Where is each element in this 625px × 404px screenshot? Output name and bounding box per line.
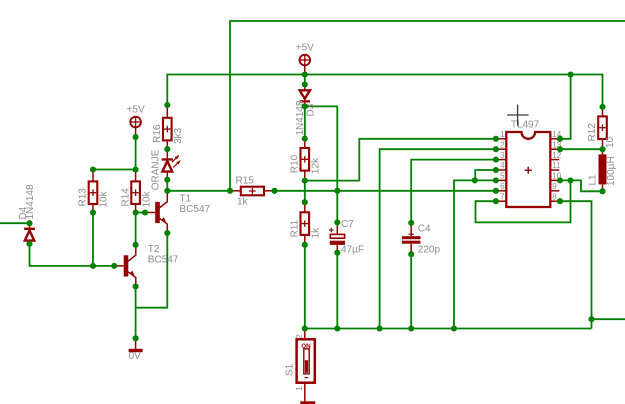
svg-text:0V: 0V [129,351,142,362]
svg-text:10: 10 [605,136,616,148]
svg-text:R10: R10 [290,154,301,173]
svg-text:1N4148: 1N4148 [25,184,36,219]
svg-text:+5V: +5V [296,43,314,54]
svg-text:6: 6 [500,182,505,191]
svg-text:L1: L1 [588,174,599,186]
svg-text:1k: 1k [311,227,322,239]
svg-text:1k: 1k [237,197,249,208]
svg-text:2: 2 [295,334,304,339]
svg-text:TL497: TL497 [511,120,540,131]
svg-text:2: 2 [500,140,505,149]
svg-text:12k: 12k [311,157,322,174]
svg-text:C7: C7 [341,219,354,230]
svg-text:5: 5 [500,172,505,181]
svg-text:3: 3 [500,151,505,160]
svg-text:11: 11 [552,161,561,170]
svg-text:10k: 10k [141,190,152,207]
svg-text:R15: R15 [236,176,255,187]
svg-text:8: 8 [552,192,557,201]
svg-text:R16: R16 [152,124,163,143]
svg-text:47µF: 47µF [341,245,364,256]
svg-text:10k: 10k [99,190,110,207]
svg-text:S1: S1 [285,363,296,376]
svg-text:R11: R11 [290,219,301,237]
svg-text:C4: C4 [418,224,431,235]
svg-text:7: 7 [500,192,505,201]
svg-text:4: 4 [500,161,505,170]
svg-text:1: 1 [500,130,505,139]
svg-text:BC547: BC547 [148,254,179,265]
svg-text:1: 1 [295,386,304,391]
svg-text:220p: 220p [418,245,441,256]
svg-text:9: 9 [552,182,557,191]
svg-text:R13: R13 [78,188,89,207]
svg-text:3k3: 3k3 [173,127,184,144]
svg-text:BC547: BC547 [180,204,211,215]
svg-text:R12: R12 [587,123,598,142]
svg-text:R14: R14 [120,188,131,207]
svg-text:+5V: +5V [127,105,145,116]
svg-text:ORANJE: ORANJE [151,149,162,190]
svg-text:100µH: 100µH [606,156,617,186]
